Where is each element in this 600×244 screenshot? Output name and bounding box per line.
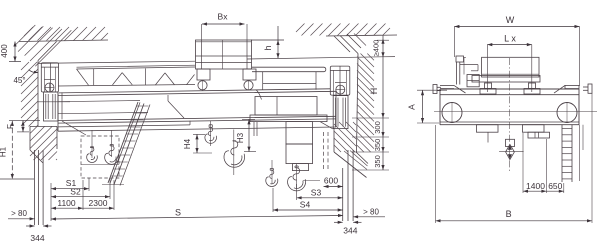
right wall lower block bbox=[333, 128, 335, 152]
cab box bbox=[467, 75, 479, 87]
svg-text:H1: H1 bbox=[0, 146, 8, 157]
dim 1400 bbox=[523, 190, 546, 192]
dim A bbox=[422, 90, 424, 123]
dim F bbox=[22, 121, 24, 132]
svg-text:H: H bbox=[369, 88, 379, 95]
dim H4 bbox=[196, 134, 198, 153]
svg-text:650: 650 bbox=[548, 181, 562, 191]
cab tower bbox=[456, 62, 458, 85]
W ext lines bbox=[453, 27, 455, 58]
left hook box bbox=[81, 136, 119, 178]
right buffer fork bbox=[333, 96, 348, 129]
dim S3 bbox=[297, 197, 343, 199]
hook symbol diamond bbox=[506, 144, 515, 159]
right ramp bbox=[554, 85, 565, 93]
svg-text:2300: 2300 bbox=[89, 198, 108, 208]
walkway line 2 bbox=[58, 112, 148, 113]
svg-text:350: 350 bbox=[373, 139, 382, 152]
left big hook bbox=[105, 145, 119, 165]
svg-text:≥400: ≥400 bbox=[372, 40, 381, 57]
left buffer wheel bbox=[45, 83, 54, 92]
svg-text:> 80: > 80 bbox=[11, 209, 27, 218]
cab cap bbox=[456, 56, 464, 62]
hook ext line bbox=[303, 180, 320, 182]
svg-text:S3: S3 bbox=[311, 188, 322, 198]
dashed ref lines 600 bbox=[323, 132, 325, 170]
dim 400 left bbox=[14, 42, 16, 62]
hoist box upper bbox=[286, 122, 313, 144]
dim H1 bbox=[11, 121, 13, 179]
girder bottom line bbox=[58, 116, 336, 120]
dim Bx bbox=[202, 23, 245, 25]
ceiling hatch (left) bbox=[24, 27, 33, 36]
dim >=400 bbox=[382, 36, 384, 58]
dim W bbox=[454, 26, 579, 28]
svg-text:Bx: Bx bbox=[218, 12, 229, 22]
under-girder bracket bbox=[167, 95, 169, 101]
hoist box lower bbox=[286, 144, 313, 164]
Lx ext lines bbox=[486, 45, 488, 92]
right buffer column bbox=[330, 66, 350, 95]
left hook ropes bbox=[91, 130, 93, 158]
svg-text:W: W bbox=[506, 15, 515, 25]
svg-text:45°: 45° bbox=[13, 76, 25, 85]
girder bottom flange line bbox=[58, 119, 336, 123]
svg-text:S2: S2 bbox=[70, 187, 81, 197]
svg-text:> 80: > 80 bbox=[363, 208, 379, 217]
trolley foot left bbox=[485, 83, 492, 89]
right wall hatch bbox=[357, 145, 364, 152]
hook cross line bbox=[499, 151, 523, 153]
end beam bbox=[440, 88, 579, 90]
left ramp bbox=[440, 84, 454, 86]
under-beam tab 1 bbox=[477, 125, 499, 133]
svg-text:H3: H3 bbox=[236, 132, 245, 143]
hoist box bottom bbox=[293, 164, 309, 171]
drive frame bbox=[262, 72, 264, 90]
left wall lower block bbox=[30, 125, 57, 127]
svg-text:1400: 1400 bbox=[526, 181, 545, 191]
drive shaft pill bbox=[252, 67, 326, 72]
right buffer wheel bbox=[336, 85, 345, 94]
girder lower long line bbox=[58, 127, 336, 131]
crab frame box bbox=[255, 97, 317, 116]
dim 344 right bbox=[338, 221, 343, 224]
handrail truss bbox=[77, 67, 196, 69]
left S ext line bbox=[50, 183, 52, 221]
trolley wheel left bbox=[198, 81, 207, 90]
dim H bbox=[382, 57, 384, 118]
trolley foot right bbox=[529, 83, 536, 89]
walkway deck line bbox=[58, 85, 195, 87]
crane wheel left (end view) bbox=[442, 103, 462, 123]
svg-text:h: h bbox=[263, 45, 273, 50]
ladder bbox=[561, 125, 563, 182]
cab bracket bbox=[460, 64, 478, 66]
floor line left bbox=[0, 178, 34, 180]
dim h bbox=[277, 26, 279, 58]
ceiling line (right) bbox=[326, 35, 397, 36]
svg-text:344: 344 bbox=[343, 226, 357, 236]
trolley wheel right bbox=[244, 81, 253, 90]
svg-text:344: 344 bbox=[30, 233, 44, 243]
stairs bbox=[108, 102, 138, 183]
svg-text:600: 600 bbox=[324, 176, 338, 186]
crab legs bbox=[253, 122, 255, 136]
crane wheel right (end view) bbox=[557, 103, 577, 123]
svg-text:L x: L x bbox=[504, 34, 516, 44]
left buffer fork bbox=[44, 92, 59, 121]
ceiling hatch (right) bbox=[296, 24, 305, 33]
right corner chamfer bbox=[340, 36, 358, 54]
crane top line left bbox=[38, 61, 195, 63]
svg-text:1100: 1100 bbox=[57, 198, 76, 208]
walkway line 1 bbox=[58, 101, 140, 102]
right wall inner face bbox=[357, 54, 359, 153]
right rail verticals bbox=[342, 168, 344, 221]
svg-text:B: B bbox=[506, 209, 512, 219]
girder right end bbox=[335, 91, 337, 127]
dim Lx bbox=[487, 44, 532, 46]
bracket diagonal under girder bbox=[62, 121, 86, 135]
dim 650 bbox=[546, 190, 563, 192]
left wall hatch bbox=[21, 62, 29, 70]
trolley box (end view) bbox=[482, 57, 539, 77]
svg-text:S4: S4 bbox=[300, 200, 311, 210]
svg-text:S: S bbox=[175, 208, 181, 218]
center line bbox=[509, 58, 511, 172]
trolley wheel blocks bbox=[197, 69, 210, 80]
dim B bbox=[436, 220, 593, 222]
right small hook bbox=[266, 169, 278, 187]
under-beam tab 2 bbox=[522, 125, 544, 133]
ceiling line (left) bbox=[19, 40, 108, 42]
line at buffer base bbox=[38, 101, 70, 103]
left corner chamfer bbox=[38, 42, 57, 61]
right hook ropes bbox=[271, 160, 273, 184]
svg-text:A: A bbox=[407, 104, 417, 110]
dim 344 left bbox=[30, 224, 35, 227]
girder left end bbox=[57, 92, 59, 131]
dim H3 bbox=[248, 119, 250, 151]
center hook lines bbox=[210, 121, 212, 146]
left wall inner face bbox=[37, 61, 39, 127]
dim S bbox=[51, 216, 343, 220]
dim S1 bbox=[51, 188, 89, 190]
crab slab slant bbox=[320, 122, 333, 129]
trolley base band bbox=[472, 76, 540, 83]
left buffer column bbox=[41, 63, 58, 92]
rail top line bbox=[59, 89, 330, 93]
trolley body bbox=[196, 40, 252, 69]
right big hook bbox=[288, 166, 306, 191]
svg-text:300: 300 bbox=[373, 121, 382, 134]
crab slab bbox=[250, 115, 327, 122]
svg-text:350: 350 bbox=[373, 155, 382, 168]
left buffer (end view) bbox=[433, 85, 437, 94]
left small hook bbox=[87, 147, 98, 163]
girder top line bbox=[58, 91, 336, 95]
dim S4 bbox=[273, 209, 343, 211]
svg-text:F: F bbox=[6, 124, 15, 129]
dim 2300 bbox=[83, 207, 114, 209]
platform line bbox=[58, 125, 190, 127]
hook suspension bbox=[506, 139, 515, 146]
svg-text:H4: H4 bbox=[183, 138, 192, 149]
center small hook bbox=[205, 125, 217, 144]
axle line bbox=[434, 111, 597, 113]
dim 600 bbox=[324, 186, 343, 188]
dim 1100 bbox=[51, 207, 83, 209]
right buffer (end view) bbox=[588, 84, 592, 93]
crane top line right bbox=[247, 57, 395, 59]
center big hook bbox=[224, 141, 245, 168]
svg-text:400: 400 bbox=[0, 44, 9, 58]
beam edge extension bbox=[579, 125, 581, 181]
dim S2 bbox=[51, 196, 110, 198]
dim chain 300/350/350 bbox=[382, 118, 384, 170]
left rail verticals bbox=[34, 150, 36, 225]
